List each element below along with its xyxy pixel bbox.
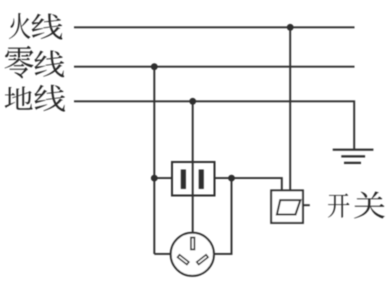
junction dot: earth bus / socket branch (189, 98, 196, 105)
three-pin socket left slot (178, 255, 189, 265)
wire: earth bus down through 2-pin socket to 3-pin socket top (192, 101, 194, 233)
wire: neutral bus (lingxian) (74, 66, 355, 68)
two-pin socket left slot (181, 170, 186, 189)
label 零线 (neutral wire) (5, 46, 65, 79)
wire: left run to 3-pin socket left pin (154, 253, 171, 255)
junction dot: node B at 2-pin socket right (228, 175, 235, 182)
label 火线 (live wire) (9, 13, 62, 39)
ground symbol (333, 150, 374, 163)
wire: node B down and left to 3-pin socket right pin (214, 178, 232, 254)
wire: node B right then down to switch top (232, 178, 282, 190)
junction dot: node A at 2-pin socket left (151, 175, 158, 182)
label 开关 (switch) (328, 191, 385, 218)
junction dot: neutral bus / socket branch (151, 63, 158, 70)
wire: node A to 2-pin socket left pin (154, 177, 172, 179)
label 地线 (earth wire) (5, 85, 65, 112)
wire: switch output tick (303, 204, 310, 206)
three-pin socket right slot (197, 255, 208, 265)
wire: earth bus (dixian), turns down to ground symbol (74, 101, 354, 149)
two-pin socket body (172, 162, 215, 196)
switch body (271, 190, 303, 223)
switch contact (parallelogram) (277, 200, 301, 214)
two-pin socket right slot (199, 170, 204, 189)
three-pin socket earth slot (top) (191, 238, 195, 250)
wire: live bus down to switch (289, 27, 291, 190)
wire: 2-pin socket right pin to node B (215, 177, 232, 179)
wire: live bus (huoxian) (74, 26, 355, 28)
wire: neutral bus down to socket left node (153, 67, 155, 254)
junction dot: live bus / switch branch (287, 24, 294, 31)
three-pin socket body (171, 233, 214, 276)
